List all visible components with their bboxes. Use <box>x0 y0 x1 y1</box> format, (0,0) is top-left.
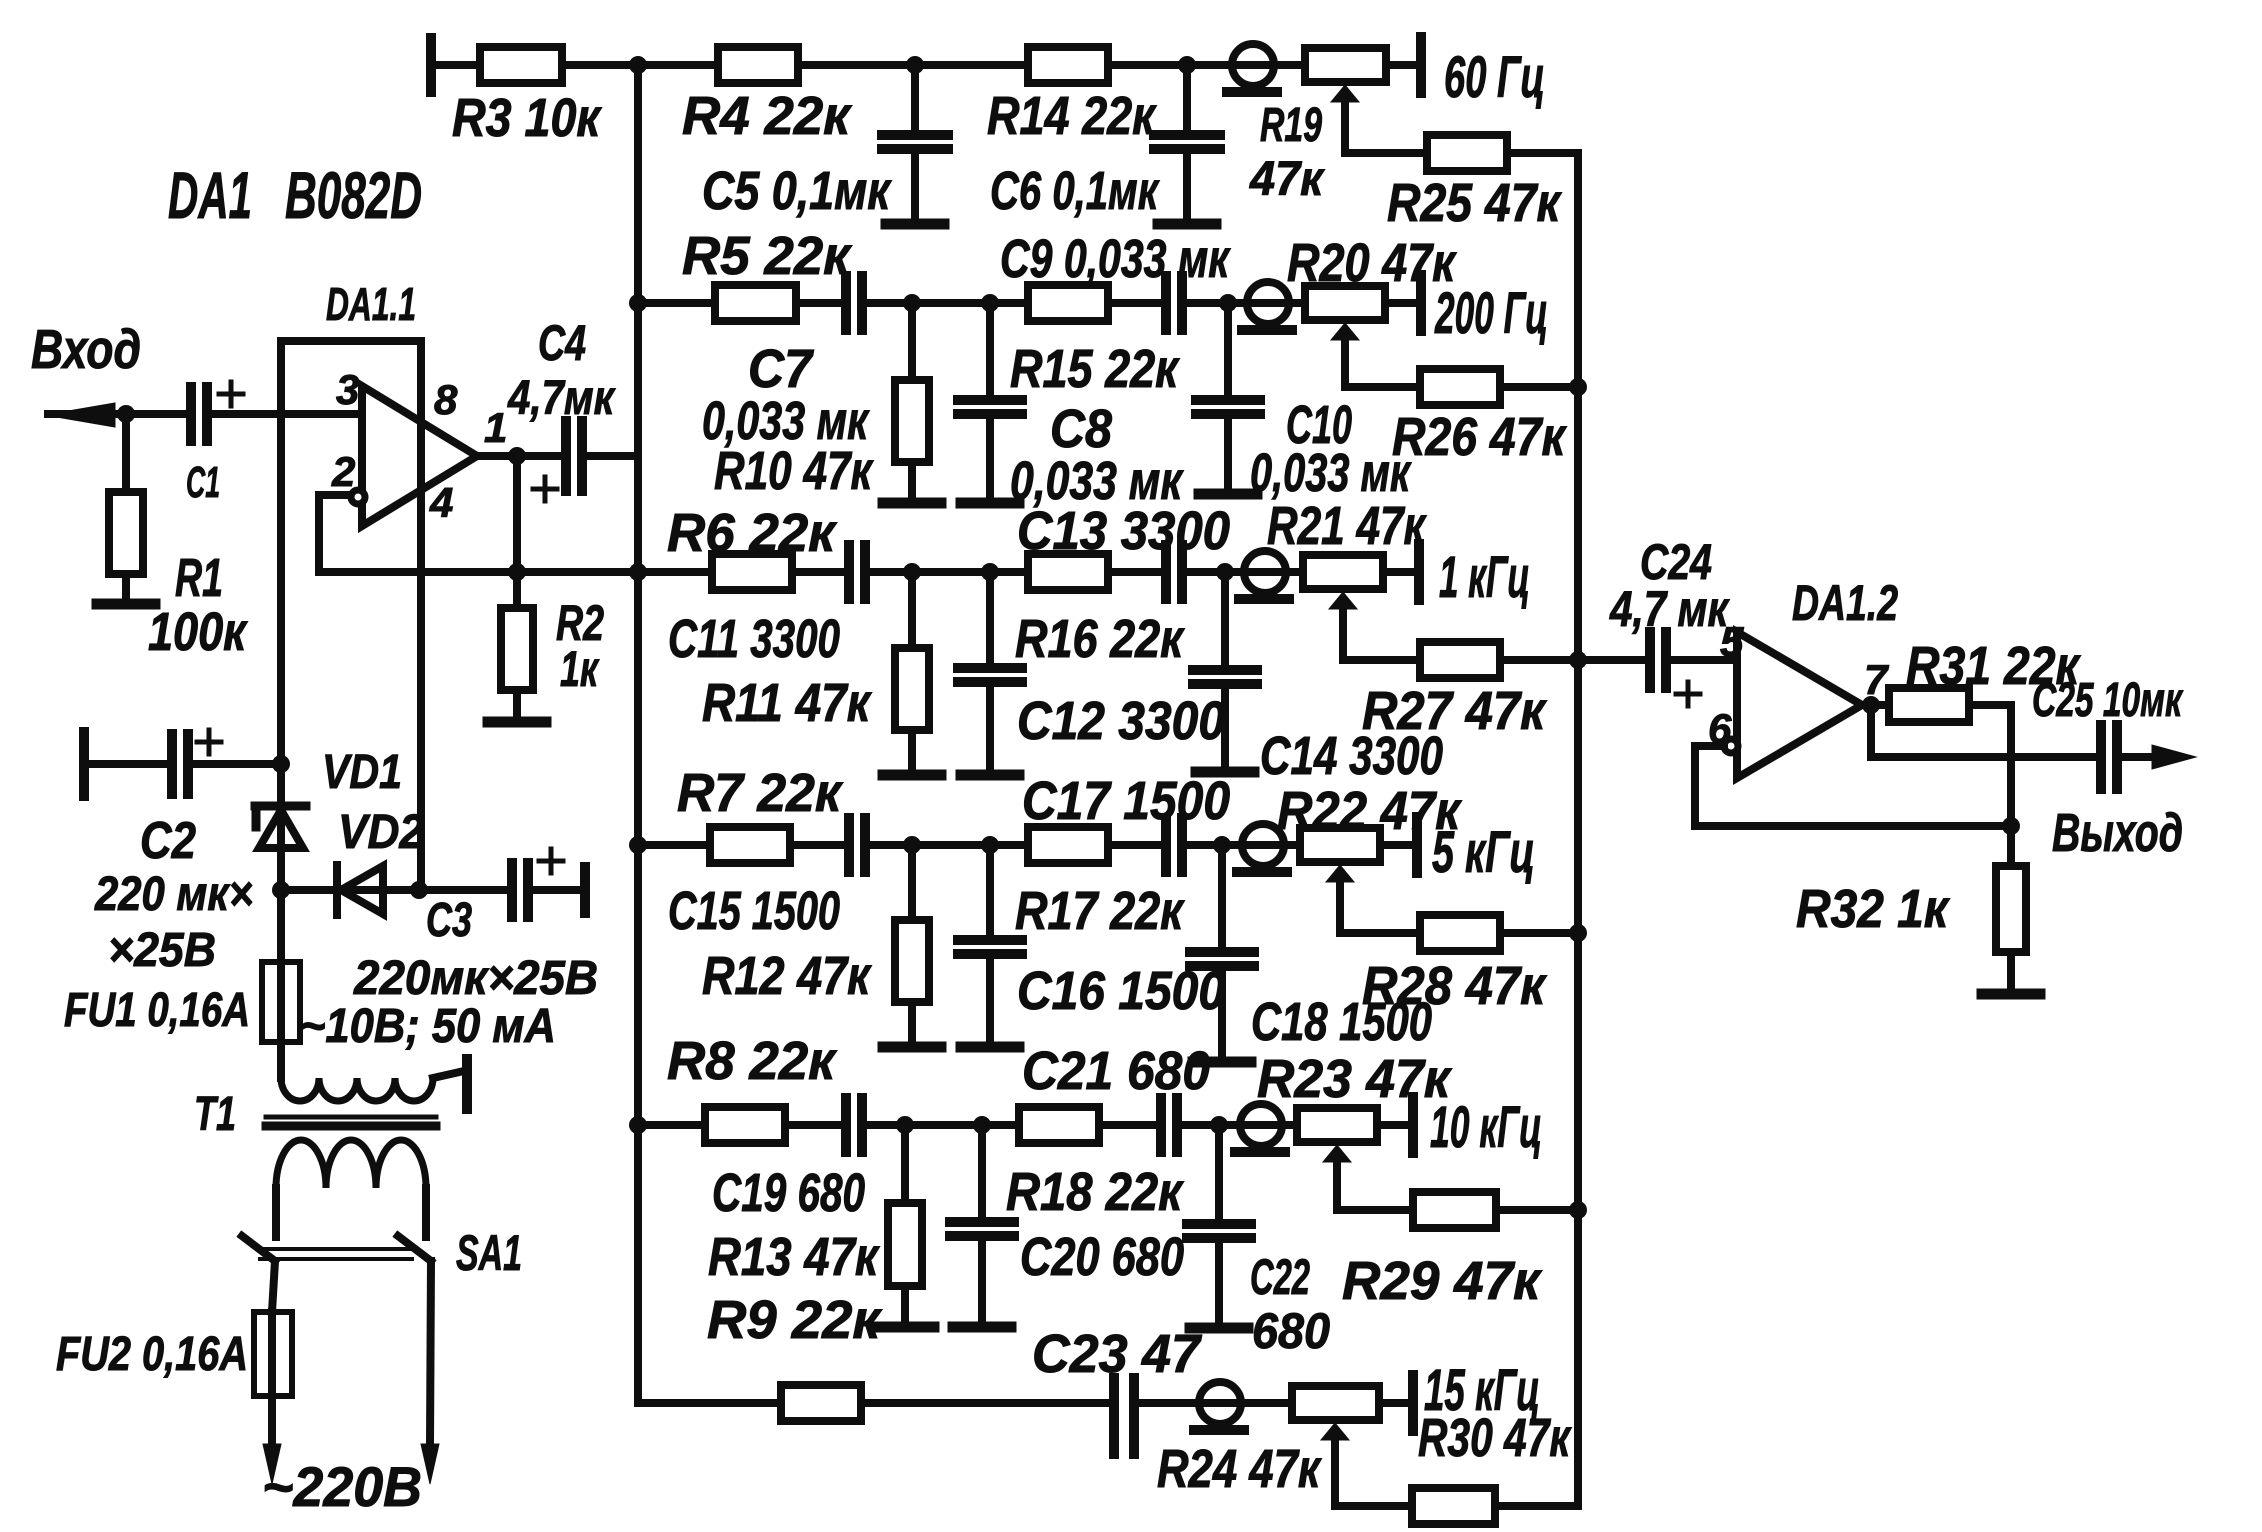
svg-text:60 Гц: 60 Гц <box>1444 45 1545 110</box>
svg-text:220 мк×: 220 мк× <box>94 868 253 921</box>
svg-text:~10В; 50 мА: ~10В; 50 мА <box>300 1000 556 1053</box>
svg-text:R10 47к: R10 47к <box>714 441 874 501</box>
svg-text:VD1: VD1 <box>322 746 402 799</box>
svg-text:680: 680 <box>1252 1303 1330 1359</box>
svg-text:C17 1500: C17 1500 <box>1022 771 1230 831</box>
svg-text:R21 47к: R21 47к <box>1267 496 1427 556</box>
svg-text:R29 47к: R29 47к <box>1342 1251 1543 1311</box>
svg-text:R26 47к: R26 47к <box>1392 407 1567 467</box>
svg-text:C13 3300: C13 3300 <box>1017 501 1230 561</box>
svg-text:Вход: Вход <box>31 318 141 380</box>
svg-text:FU2 0,16А: FU2 0,16А <box>56 1328 248 1381</box>
svg-text:10 кГц: 10 кГц <box>1430 1095 1542 1160</box>
svg-text:R18 22к: R18 22к <box>1006 1162 1184 1222</box>
svg-text:R9 22к: R9 22к <box>707 1290 883 1350</box>
svg-text:C2: C2 <box>140 812 196 870</box>
svg-text:100к: 100к <box>148 602 248 662</box>
svg-text:C11 3300: C11 3300 <box>668 609 840 669</box>
svg-text:4,7 мк: 4,7 мк <box>1609 581 1730 637</box>
svg-text:R5 22к: R5 22к <box>682 226 853 286</box>
svg-text:0,033 мк: 0,033 мк <box>1250 443 1412 503</box>
svg-text:4,7мк: 4,7мк <box>507 372 616 425</box>
svg-text:R20 47к: R20 47к <box>1287 233 1457 293</box>
svg-text:C6 0,1мк: C6 0,1мк <box>990 161 1160 221</box>
svg-text:C23 47: C23 47 <box>1032 1324 1203 1384</box>
svg-text:R13 47к: R13 47к <box>708 1227 880 1287</box>
svg-text:1к: 1к <box>560 641 600 697</box>
svg-text:DA1.2: DA1.2 <box>1792 575 1898 631</box>
svg-text:R23 47к: R23 47к <box>1257 1049 1453 1109</box>
svg-text:220мк×25В: 220мк×25В <box>353 952 598 1005</box>
svg-text:R32 1к: R32 1к <box>1796 879 1950 939</box>
svg-text:7: 7 <box>1864 656 1889 703</box>
svg-text:R12 47к: R12 47к <box>702 946 872 1006</box>
svg-text:R1: R1 <box>175 548 223 608</box>
svg-text:VD2: VD2 <box>338 806 424 859</box>
svg-text:15 кГц: 15 кГц <box>1424 1358 1540 1423</box>
svg-text:C16 1500: C16 1500 <box>1017 961 1225 1021</box>
svg-text:C15 1500: C15 1500 <box>668 881 840 941</box>
svg-text:R7 22к: R7 22к <box>677 763 844 823</box>
svg-text:~220В: ~220В <box>262 1455 422 1518</box>
svg-text:Выход: Выход <box>2052 803 2183 863</box>
svg-text:6: 6 <box>1708 705 1732 752</box>
svg-text:2: 2 <box>331 448 355 495</box>
svg-text:FU1 0,16А: FU1 0,16А <box>64 984 250 1037</box>
svg-text:C20 680: C20 680 <box>1020 1227 1184 1287</box>
svg-text:4: 4 <box>429 479 453 526</box>
svg-text:R4 22к: R4 22к <box>682 86 853 146</box>
svg-text:C9 0,033 мк: C9 0,033 мк <box>1000 229 1231 289</box>
svg-text:DA1: DA1 <box>168 158 252 232</box>
svg-text:B082D: B082D <box>285 158 422 232</box>
svg-text:200 Гц: 200 Гц <box>1434 281 1548 346</box>
svg-text:R15 22к: R15 22к <box>1010 339 1180 399</box>
svg-text:R8 22к: R8 22к <box>667 1031 838 1091</box>
svg-text:C3: C3 <box>426 894 472 947</box>
svg-text:R19: R19 <box>1260 99 1322 152</box>
svg-text:1: 1 <box>484 404 507 451</box>
svg-text:5 кГц: 5 кГц <box>1432 820 1535 885</box>
svg-text:R16 22к: R16 22к <box>1015 609 1185 669</box>
svg-text:C4: C4 <box>538 315 586 371</box>
svg-text:8: 8 <box>434 376 458 423</box>
svg-text:R14 22к: R14 22к <box>987 86 1157 146</box>
svg-text:C21 680: C21 680 <box>1022 1041 1210 1101</box>
svg-text:5: 5 <box>1720 618 1744 665</box>
svg-text:C19 680: C19 680 <box>712 1163 865 1223</box>
svg-text:3: 3 <box>336 366 359 413</box>
svg-text:1 кГц: 1 кГц <box>1439 545 1530 610</box>
svg-text:C25 10мк: C25 10мк <box>2032 674 2184 727</box>
svg-text:C12 3300: C12 3300 <box>1017 691 1225 751</box>
svg-text:R11 47к: R11 47к <box>702 673 872 733</box>
svg-text:R27 47к: R27 47к <box>1362 681 1547 741</box>
svg-text:R24 47к: R24 47к <box>1157 1439 1322 1499</box>
svg-text:C1: C1 <box>186 458 220 507</box>
svg-text:C5 0,1мк: C5 0,1мк <box>702 161 892 221</box>
svg-text:×25В: ×25В <box>108 924 216 977</box>
svg-text:C8: C8 <box>1050 399 1112 459</box>
svg-text:C22: C22 <box>1250 1249 1310 1305</box>
svg-text:SA1: SA1 <box>456 1225 522 1281</box>
svg-text:C7: C7 <box>748 339 815 399</box>
svg-text:R17 22к: R17 22к <box>1015 881 1185 941</box>
svg-text:DA1.1: DA1.1 <box>326 278 416 330</box>
svg-text:R3 10к: R3 10к <box>452 88 602 148</box>
svg-text:47к: 47к <box>1249 153 1325 206</box>
svg-text:R6 22к: R6 22к <box>667 503 838 563</box>
svg-text:R25 47к: R25 47к <box>1387 173 1562 233</box>
svg-text:T1: T1 <box>194 1088 236 1141</box>
svg-text:R28 47к: R28 47к <box>1362 956 1547 1016</box>
